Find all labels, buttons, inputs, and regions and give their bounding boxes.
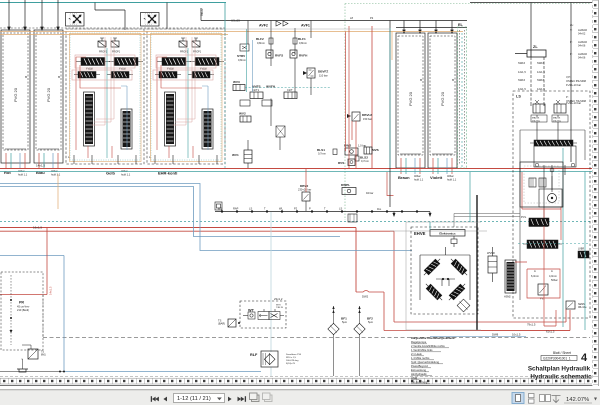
relief valve DBV2 [298,184,311,211]
solenoid valve WV3 [233,80,330,91]
orifice BLF2 [256,28,273,54]
svg-text:MVS: MVS [372,148,379,152]
svg-text:STRV: STRV [237,54,246,58]
svg-text:B: B [58,75,60,79]
svg-text:04+06: 04+06 [578,43,586,47]
svg-text:08L/1be: 08L/1be [578,306,587,309]
filter symbol mid [276,126,285,137]
valve stub symbols below MVFS [240,100,272,106]
orifice BLF1 [293,28,307,54]
wire gray dashed pump drain [42,294,44,337]
svg-text:AVF1: AVF1 [301,24,310,28]
shuttle valve DWPL [341,183,373,195]
svg-text:9xLU: 9xLU [200,8,204,16]
svg-text:ZL: ZL [533,45,538,49]
svg-text:AHS/46: AHS/46 [578,40,587,44]
svg-text:V:: V: [570,28,573,32]
svg-text:Violett: Violett [430,175,443,180]
svg-text:14x1,5: 14x1,5 [36,164,45,168]
junction dots bottom [59,371,61,373]
toolbar view single page active [512,393,524,404]
svg-text:BLS1: BLS1 [317,148,325,152]
svg-text:RVFH: RVFH [299,54,308,58]
check valve RVS [338,159,355,166]
svg-text:7/80 W: 7/80 W [276,307,284,309]
svg-text:12x1,5: 12x1,5 [518,87,526,91]
connector box at rail start [215,202,222,210]
svg-text:WVFH: WVFH [266,85,276,89]
note Donaldson filter spec [286,354,302,365]
svg-text:16x1,5: 16x1,5 [33,226,42,230]
svg-text:PVG 20: PVG 20 [13,87,18,102]
svg-text:0,7mm: 0,7mm [318,152,326,156]
wire ZL hoses [531,57,544,103]
toolbar view continuous icon [529,394,535,404]
wire orange stub below Blau [57,174,59,209]
border ruler bottom ticks dark [3,380,589,382]
toolbar next-view icon disabled [263,393,273,402]
svg-text:PROP1: PROP1 [112,51,121,54]
svg-text:DWPL: DWPL [341,183,350,187]
valve LVBR small right [578,248,589,259]
wire gray frame EHVE top [390,230,487,232]
filter RLF [250,351,278,367]
valve PVL [521,215,548,227]
wire top teal supply line [0,2,226,4]
wire red tank bus upper [0,228,356,293]
svg-text:ZL:: ZL: [570,23,574,27]
group border dashed PVG tops [0,27,226,29]
wire feeders into right PVG sections [403,21,453,34]
check valve RVFS [266,50,283,58]
svg-text:0,8mm: 0,8mm [238,58,246,62]
heavy vertical line right of EHVE [476,195,478,330]
directional valve steering block [530,140,577,172]
svg-text:B: B [420,78,422,82]
svg-text:PR: PR [19,301,24,305]
svg-text:WS: WS [218,207,222,211]
note OSPEC steering units [566,75,586,105]
toolbar nav last page button [238,396,246,402]
directional valve LVBL [523,240,562,249]
svg-text:Blau: Blau [36,170,45,175]
svg-text:P2: P2 [294,207,298,211]
rail port labels [218,207,342,211]
svg-text:12x1,5: 12x1,5 [518,70,526,74]
svg-text:9xL: 9xL [377,207,382,211]
svg-text:14x1,5: 14x1,5 [49,286,53,295]
box Elektronics [430,230,465,237]
valve section PVG20 Braun [396,33,425,174]
svg-text:BLF2: BLF2 [256,37,264,41]
solenoid valve WVFH [266,85,297,99]
wire red elbow from LS bus [387,172,394,196]
svg-text:RAP: RAP [233,207,239,211]
svg-text:MVFS: MVFS [252,85,261,89]
wire top black header line [95,3,167,31]
svg-text:PROP1: PROP1 [99,51,108,54]
border ruler right strip [593,0,599,386]
svg-text:PowerBeyond: PowerBeyond [411,364,428,368]
svg-text:40bar: 40bar [447,174,454,178]
wire teal dashed LS area [518,243,590,245]
svg-text:LS: LS [339,207,342,211]
svg-text:P+50+10 bar: P+50+10 bar [566,101,581,105]
toolbar page dropdown [174,394,225,403]
valve section PVG20 Rot [1,30,30,169]
svg-text:C2/T1: C2/T1 [252,88,260,92]
svg-text:EH-Lenkung: EH-Lenkung [411,368,426,372]
svg-text:W10 x 1,5: W10 x 1,5 [286,357,297,359]
toolbar nav first page button [151,396,159,402]
solenoid valve WV1 [232,140,252,168]
svg-text:LS: LS [249,207,252,211]
svg-text:PROP1: PROP1 [193,51,202,54]
svg-text:04+06: 04+06 [578,55,586,59]
svg-text:Elektronics: Elektronics [439,231,456,235]
svg-text:40bar: 40bar [51,169,58,173]
svg-text:WV3: WV3 [233,80,240,84]
svg-text:1-12 (11 / 21): 1-12 (11 / 21) [177,396,211,402]
valve below rail mid [348,214,357,222]
wire red tank bus lower [0,231,566,322]
pump crossover symbol section EHR [141,13,160,27]
svg-text:1 Ventil Mitte links: 1 Ventil Mitte links [411,348,433,352]
svg-text:U3_03: U3_03 [231,19,240,23]
svg-text:110 bar: 110 bar [319,74,328,78]
relief valve SEMS [566,301,587,309]
check valve RVFH [290,50,308,58]
wire red risers center [306,26,356,192]
svg-text:0,8mm: 0,8mm [299,41,307,45]
svg-text:Rot: Rot [4,170,11,175]
wire gray dashed drain line [43,337,590,339]
small valves in pump box [529,178,546,187]
svg-text:SW16: SW16 [518,78,526,82]
svg-text:hubl 1,1: hubl 1,1 [121,172,131,176]
svg-text:SW16: SW16 [518,61,526,65]
wires red LS group [430,209,570,331]
svg-text:2:1 Hauk: 2:1 Hauk [411,352,422,356]
svg-text:40bar: 40bar [18,169,25,173]
svg-text:V,P:: V,P: [566,75,571,79]
shuttle valve DWS [344,144,366,156]
filter BF1 [328,306,347,376]
orifice BLS1 [317,148,337,156]
svg-text:DBV2: DBV2 [300,184,309,188]
svg-text:61x1,5: 61x1,5 [546,330,555,334]
svg-text:4: 4 [581,352,588,364]
svg-text:Donaldson P16: Donaldson P16 [286,354,302,356]
svg-text:BF1: BF1 [341,317,347,321]
wire black lower rail [215,211,430,213]
svg-text:PVG 20: PVG 20 [408,91,413,106]
cylinder ZL [515,45,546,57]
note equipment variant list [411,336,456,384]
svg-text:P:: P: [570,40,573,44]
svg-text:WV1: WV1 [232,153,239,157]
underline ticks equipment list [411,344,449,384]
wire feeders into left PVG sections [8,0,59,30]
svg-text:hubl 1,1: hubl 1,1 [18,172,28,176]
orifice BLS2 [355,156,369,164]
group box LS [513,91,590,318]
svg-text:DWS: DWS [344,144,351,148]
svg-text:MAV4S: MAV4S [553,117,561,120]
pressure switch TS small [22,345,46,359]
svg-text:G220P30041001_1: G220P30041001_1 [543,357,571,361]
thermo bypass valve WT internals [243,309,284,320]
svg-text:DBVL8: DBVL8 [362,113,372,117]
check valve AVF2 [259,21,288,28]
title block sheet number [541,351,588,364]
toolbar prev-view icon [250,393,260,402]
group border green dotted upper right [345,4,590,221]
wire red pump supply left [0,228,47,295]
rail end arrow [393,212,395,217]
svg-text:P:: P: [570,52,573,56]
svg-text:B: B [452,78,454,82]
svg-text:C2/T: C2/T [287,88,293,92]
svg-text:6,3mm: 6,3mm [531,274,539,278]
valve section Gelb assembly [66,29,144,164]
svg-text:hubl 1,1: hubl 1,1 [51,172,61,176]
temp sensor TS [218,319,240,328]
svg-text:210 (Bedi): 210 (Bedi) [17,308,29,312]
wire teal mid risers right [430,172,470,230]
svg-text:PROP1: PROP1 [180,51,189,54]
toolbar nav prev button [163,397,167,402]
toolbar background [0,389,600,405]
svg-text:79x1,5: 79x1,5 [527,323,536,327]
svg-text:EHVE: EHVE [414,231,426,236]
port block EL [458,23,467,168]
svg-text:04+02: 04+02 [578,31,586,35]
wire red right riser [371,26,373,168]
svg-text:230+20 bar: 230+20 bar [298,188,311,192]
relief valve DBVL8 [347,112,372,121]
filter BF2 [354,306,373,376]
svg-text:P: P [309,207,311,211]
solenoid valve MAV4S right [552,100,568,122]
valve block below pump box [529,218,549,226]
toolbar nav next button [228,397,232,402]
toolbar view facing icon [540,395,551,402]
pump group PR dashed box [1,272,43,350]
wire orange pilot bus [0,32,463,35]
border ruler bottom strip [0,377,592,386]
wire black rail AVF [390,21,467,208]
wire blue return inner [0,187,340,237]
svg-text:WV2: WV2 [239,112,246,116]
valve section PVG20 Violett [428,33,457,174]
group box pump top right [520,162,563,207]
svg-text:0,7mm: 0,7mm [361,159,369,163]
wire black EL risers [531,103,558,117]
svg-text:DW2: DW2 [362,295,369,299]
wire upper black feed line [201,8,467,21]
svg-text:40bar: 40bar [414,174,421,178]
svg-text:WL: WL [279,207,283,211]
toolbar fit width icon [552,396,561,403]
svg-text:BLS2: BLS2 [360,156,368,160]
label PR [17,301,30,312]
svg-text:LVBR: LVBR [578,248,584,251]
frame box EHVE outer [406,222,481,330]
valve DW2 in red line [356,291,570,331]
svg-text:LS: LS [516,95,521,99]
diagonal valve EHVE top-right [449,257,470,278]
svg-text:SW16: SW16 [537,61,545,65]
svg-text:03L/05a: 03L/05a [532,120,541,122]
wire teal dotted return bus [0,221,592,223]
diagonal valve EHVE bottom-left [424,282,445,303]
rail end arrow x430 [429,212,431,217]
svg-text:4,0mm: 4,0mm [549,274,557,278]
svg-text:▾: ▾ [594,397,597,403]
svg-text:HSM2: HSM2 [504,296,511,299]
svg-text:5µm: 5µm [368,320,373,324]
svg-text:(BAR): (BAR) [218,322,225,326]
svg-text:BLF1: BLF1 [298,37,306,41]
wire teal dashed center risers [224,3,226,31]
wire teal dashed risers [225,30,462,168]
svg-text:94 bar: 94 bar [366,191,373,195]
wire teal right riser [389,28,391,168]
wire teal riser to MVFS [246,29,248,92]
wires teal LS group [563,148,585,330]
svg-text:hydr. Querverbindelung: hydr. Querverbindelung [411,360,439,364]
group box WT [240,297,286,328]
svg-text:1,4 Mitte rechts: 1,4 Mitte rechts [411,356,430,360]
svg-text:160-078 deg: 160-078 deg [286,360,299,362]
wire red main pressure bus [0,168,592,170]
rail port ticks [221,211,418,213]
svg-text:2 Ventile Anzahl/Mitte rechts: 2 Ventile Anzahl/Mitte rechts [411,344,445,348]
wire blue return big loop left [0,256,261,372]
svg-text:P:: P: [566,95,569,99]
svg-text:BF2: BF2 [367,317,373,321]
wire lightblue WT drop line [270,212,272,376]
wire orange frame right [391,32,393,61]
wire teal LS bus [0,171,592,173]
svg-text:MAV4S: MAV4S [532,117,540,120]
svg-text:142.07%: 142.07% [566,397,590,403]
svg-text:P2: P2 [370,16,374,20]
wire blue drain segment bottom right [430,335,526,337]
svg-text:PVL: PVL [521,215,527,219]
svg-text:PVG 20: PVG 20 [440,91,445,106]
svg-text:Hydraulic schematic: Hydraulic schematic [530,374,592,381]
check valve WVSR right of EHVE [487,247,497,282]
svg-text:40bar: 40bar [121,169,128,173]
svg-text:AVF2: AVF2 [259,24,268,28]
pump crossover symbol section Gelb [66,13,85,27]
solenoid valve MAV4S left [531,100,547,122]
svg-text:Schaltplan Hydraulik: Schaltplan Hydraulik [528,366,591,373]
svg-text:AHS/46: AHS/46 [578,28,587,32]
svg-text:A: A [551,269,553,273]
throttle STRV [237,44,249,62]
solenoid valve WV2 [239,112,251,123]
svg-text:Braun: Braun [398,175,410,180]
diagonal valve EHVE top-left [422,257,443,278]
svg-text:ß(10)=75: ß(10)=75 [286,363,296,365]
wire gray links EHVE to pump box [454,214,520,228]
svg-text:hubl 1,1: hubl 1,1 [447,177,457,181]
svg-text:WTK: WTK [276,305,281,307]
wire top far right line [470,3,592,163]
svg-text:A: A [534,269,536,273]
group box EHVE [411,227,478,314]
solenoid valve MVS [364,147,379,154]
wire black risers center [248,21,311,151]
pressure valve group 6,3mm [531,269,558,301]
svg-text:RVS: RVS [338,161,344,165]
pump circle LS [522,172,562,240]
svg-text:03L/05a: 03L/05a [553,120,562,122]
svg-text:HSM: HSM [411,376,418,380]
wire blue return outer [0,184,412,251]
tank symbol bottom left [17,359,28,372]
wires inside LS box [520,122,585,300]
svg-text:23x1,2: 23x1,2 [274,297,283,301]
wire frame gray upper group [66,28,390,30]
wire blue riser to MVFS [252,40,254,92]
hose labels ZL lines [518,61,545,91]
svg-text:AHS/46: AHS/46 [578,52,587,56]
svg-text:Hinthydraulik: Hinthydraulik [411,372,427,376]
svg-text:150 bar: 150 bar [363,117,372,121]
note ZL fittings top right [570,23,587,59]
manifold HSM vertical [504,260,516,299]
svg-text:hubl 1,1: hubl 1,1 [414,177,424,181]
connector below Elektronics [451,236,457,247]
svg-text:Blatt / Sheet: Blatt / Sheet [553,351,571,355]
EHVE internal wires [420,247,470,300]
svg-text:0,8mm: 0,8mm [257,41,265,45]
valve section EHR-konti assembly [147,29,225,164]
svg-text:WVSR: WVSR [487,251,495,255]
svg-text:8M1: 8M1 [41,354,46,357]
svg-text:OSPEC 65LSRM: OSPEC 65LSRM [566,79,586,83]
svg-text:EL: EL [458,23,464,27]
svg-text:Vio-Federung: Vio-Federung [411,380,428,384]
valve section PVG20 Blau [34,30,63,169]
svg-text:50bar: 50bar [551,278,558,282]
svg-text:Regelpumpe: Regelpumpe [411,340,427,344]
filter diamond EHVE [457,299,470,312]
relief valve DBVFZ [303,68,328,78]
solenoid valve MVFS [250,85,263,99]
wire bottom black line [0,371,64,373]
svg-text:DBVFZ: DBVFZ [318,70,328,74]
svg-text:RLF: RLF [250,353,258,357]
svg-text:B: B [25,75,27,79]
svg-text:P+50+10 bar: P+50+10 bar [566,83,581,87]
svg-text:PVG 20: PVG 20 [46,87,51,102]
svg-text:5µm: 5µm [342,320,347,324]
svg-text:RVFS: RVFS [275,54,283,58]
border ruler right ticks dark [594,4,596,382]
svg-text:SW16: SW16 [537,78,545,82]
diagonal valve EHVE bottom-right [447,282,468,303]
